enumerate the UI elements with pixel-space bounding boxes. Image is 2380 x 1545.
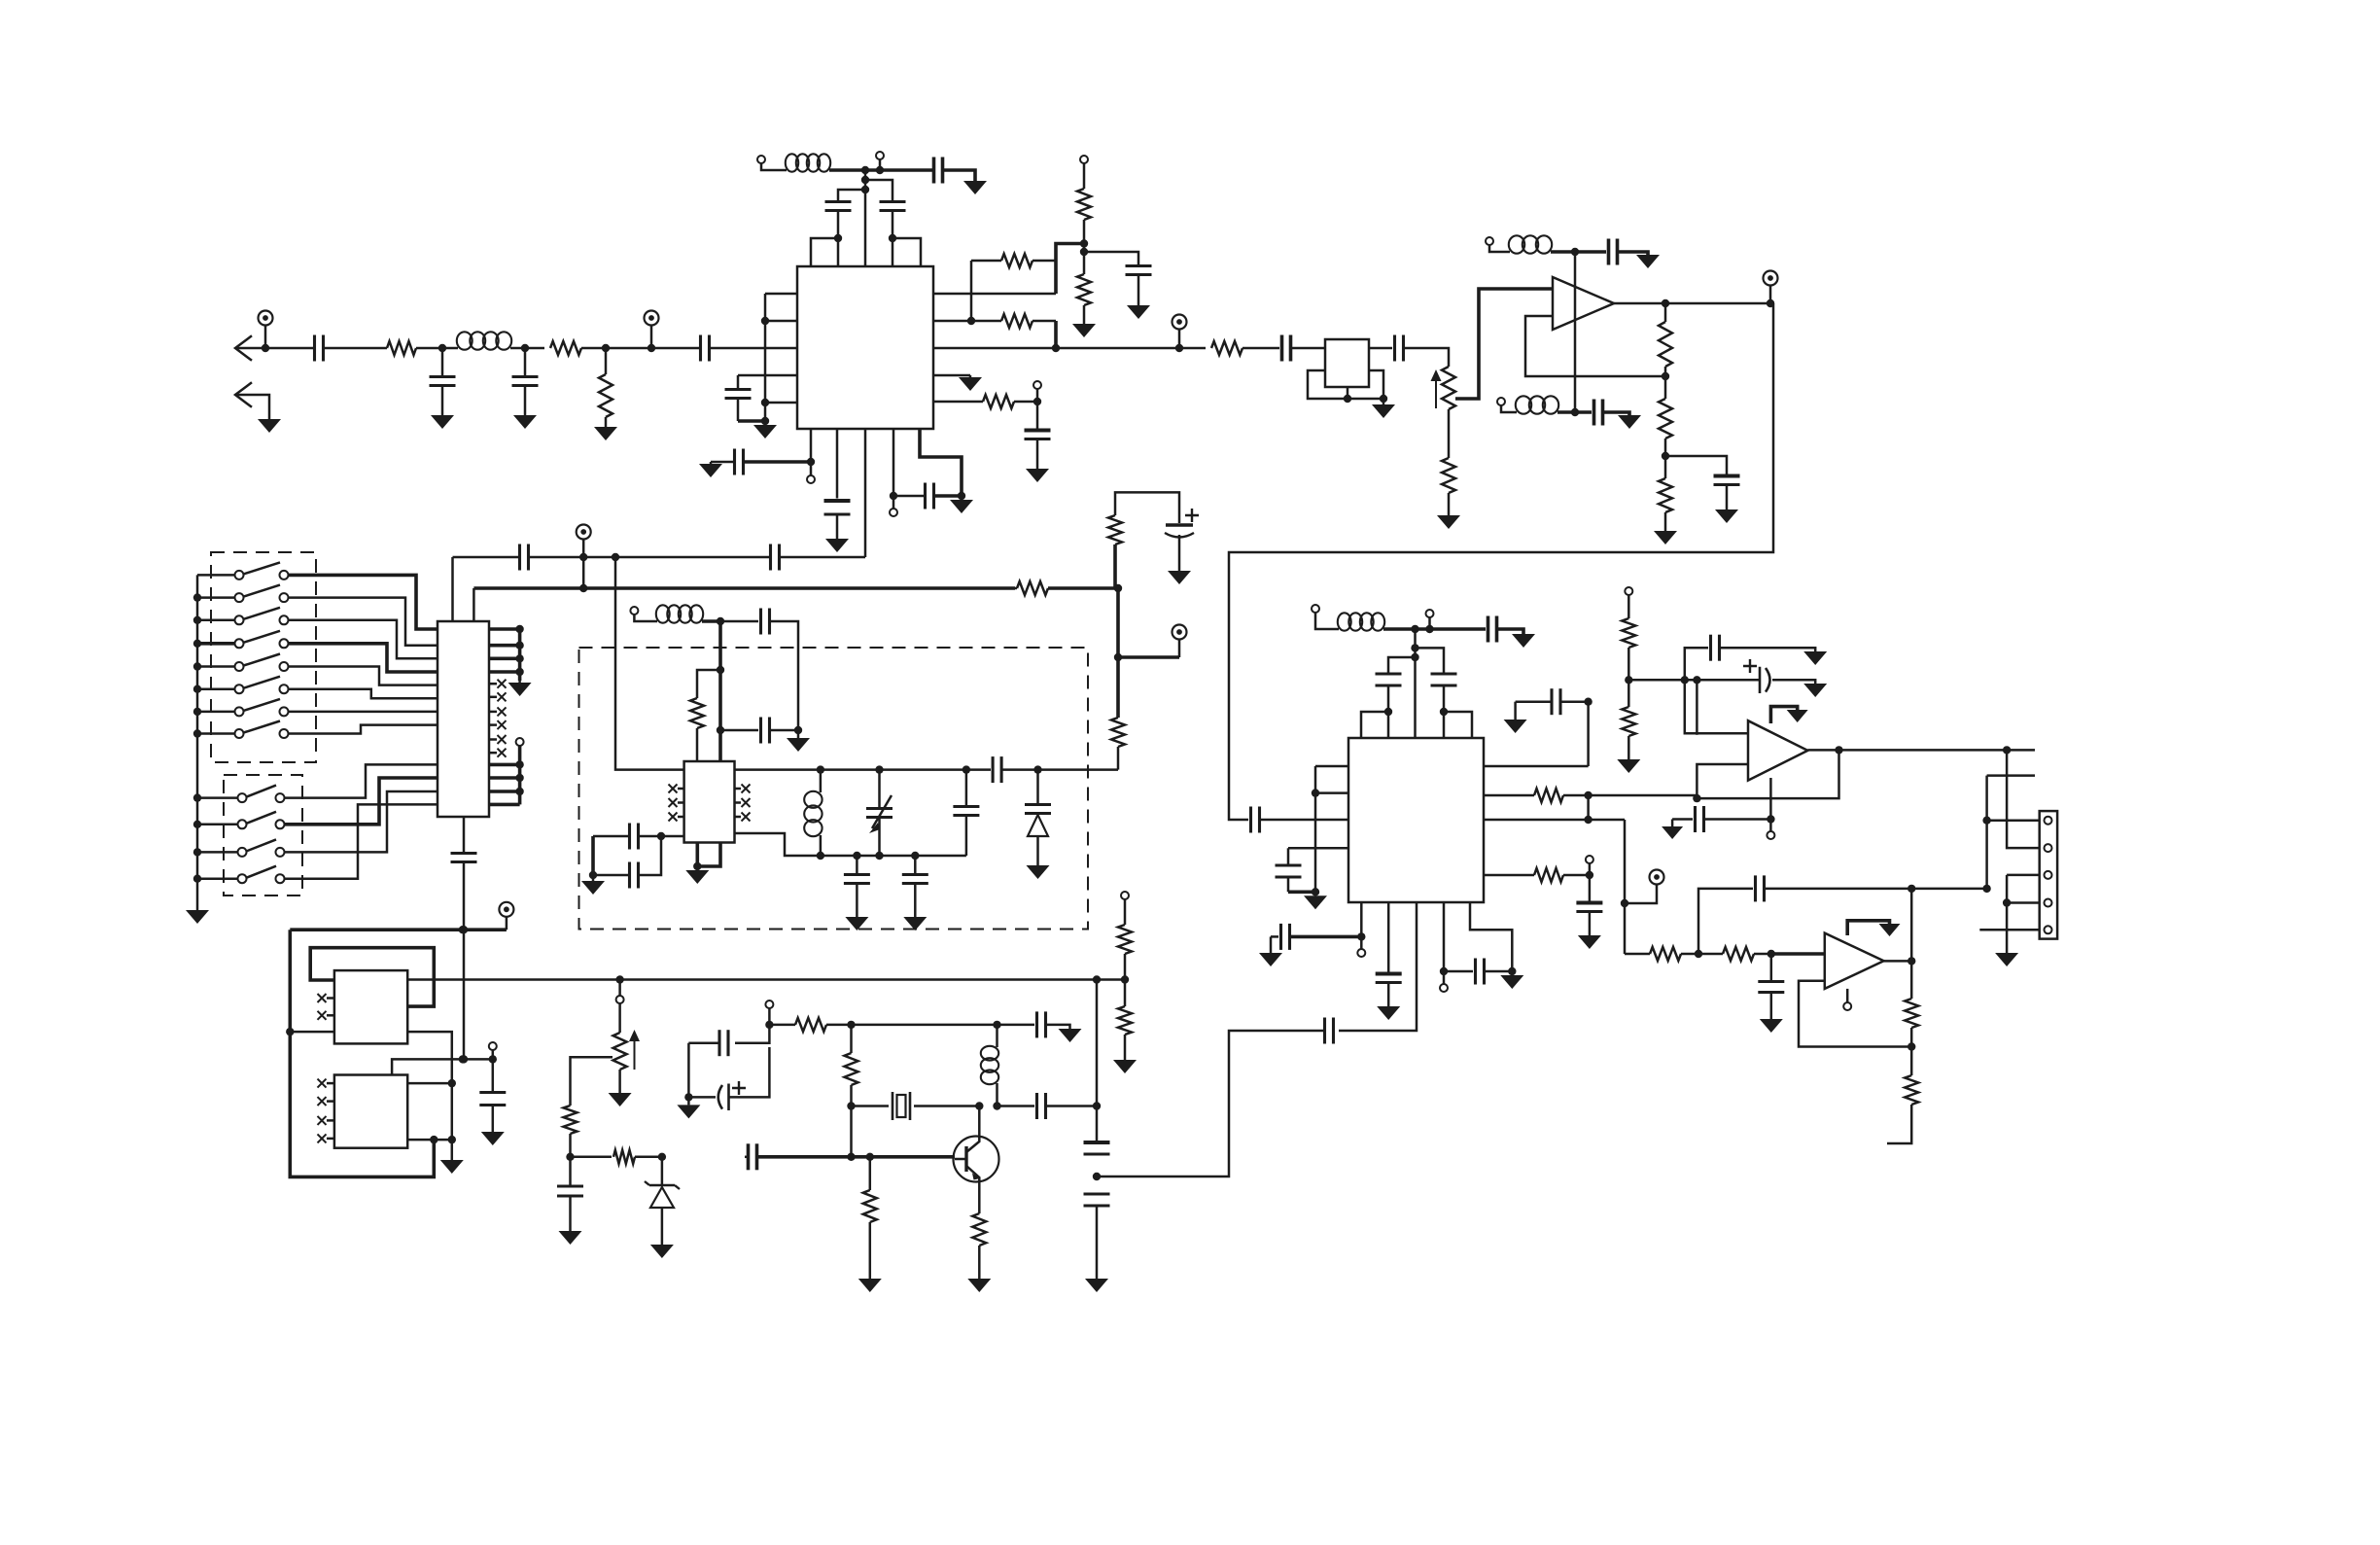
- capacitor C3: [512, 348, 539, 412]
- pin stub: [765, 320, 797, 323]
- junction: [193, 616, 201, 624]
- capacitor C45b: [479, 1059, 506, 1132]
- node A3: [521, 344, 529, 352]
- terminal: [1312, 605, 1319, 613]
- wire: [870, 1155, 955, 1159]
- node B4: [861, 166, 869, 174]
- node C3: [1571, 248, 1579, 256]
- node H15: [1508, 967, 1516, 975]
- terminal: [516, 738, 524, 746]
- nc pin x: [489, 720, 507, 729]
- IC U4 (VCO): [684, 761, 735, 843]
- wire: [829, 168, 865, 172]
- ground: [1127, 303, 1150, 319]
- wire bus: [933, 347, 1179, 350]
- junction: [193, 593, 201, 601]
- node K1: [459, 926, 467, 933]
- resistor R6: [1077, 163, 1091, 252]
- switch S12: [197, 866, 285, 884]
- pin stub: [1484, 765, 1589, 768]
- wire: [718, 621, 722, 730]
- wire loop: [290, 930, 434, 1176]
- capacitor C33b: [1376, 674, 1402, 712]
- capacitor C26b: [593, 836, 661, 889]
- inductor L5: [656, 605, 703, 622]
- junction: [193, 729, 201, 737]
- nc pin x: [669, 785, 684, 793]
- capacitor C5: [725, 375, 752, 421]
- ground: [1654, 531, 1677, 544]
- node J5: [1907, 1042, 1915, 1050]
- ground: [699, 462, 722, 477]
- capacitor C14: [1025, 402, 1051, 467]
- node B16: [807, 458, 815, 466]
- capacitor C49b: [1037, 1093, 1046, 1119]
- test point TP2: [645, 311, 659, 349]
- ground: [967, 1279, 991, 1292]
- potentiometer RV2: [613, 1003, 640, 1070]
- node B3: [761, 417, 769, 425]
- node J1: [1695, 950, 1702, 958]
- wire: [1514, 702, 1517, 720]
- junction: [193, 662, 201, 670]
- terminal TP7: [1625, 870, 1664, 904]
- ground: [1803, 684, 1827, 697]
- switch bus: [196, 575, 199, 910]
- ground: [594, 425, 617, 440]
- node C7: [1662, 452, 1669, 460]
- wire: [1575, 250, 1606, 254]
- crystal Y1: [852, 1092, 980, 1120]
- ground: [1059, 1029, 1082, 1042]
- ground: [1636, 255, 1660, 268]
- ground: [1995, 953, 2018, 966]
- capacitor C25b: [593, 824, 661, 850]
- pin stub: [933, 293, 1056, 296]
- pin stub: [1288, 847, 1348, 850]
- capacitor C20b: [451, 854, 477, 862]
- ground: [903, 917, 927, 931]
- ground: [825, 537, 849, 552]
- wire top: [290, 928, 507, 931]
- wire: [1587, 702, 1590, 766]
- node I5: [1693, 794, 1700, 802]
- node F3: [717, 726, 724, 734]
- node B8: [889, 234, 896, 242]
- pin stub: [1484, 819, 1625, 822]
- terminal: [630, 607, 638, 614]
- ground: [1662, 826, 1683, 839]
- wire: [518, 629, 522, 681]
- node M2: [684, 1093, 692, 1101]
- inductor L6: [804, 770, 822, 856]
- node M8: [847, 1153, 855, 1161]
- node I8: [2003, 746, 2011, 754]
- resistor R33: [1118, 979, 1132, 1060]
- wire: [463, 1058, 493, 1061]
- ground: [858, 1279, 882, 1292]
- node K2: [286, 1028, 294, 1036]
- ground: [508, 681, 532, 696]
- node K5: [430, 1136, 437, 1143]
- inductor L3: [1509, 235, 1552, 253]
- capacitor C28b series: [993, 756, 1001, 783]
- wire: [1557, 410, 1575, 414]
- node E1: [579, 553, 587, 561]
- pol capacitor PC1: [1165, 509, 1199, 569]
- ground: [1760, 1019, 1783, 1033]
- wire: [1054, 321, 1058, 348]
- wire: [810, 429, 813, 462]
- wire: [1807, 749, 2035, 752]
- wire: [1987, 819, 2040, 822]
- capacitor C9: [1126, 266, 1152, 304]
- ground: [258, 417, 281, 433]
- capacitor C40b: [1444, 959, 1512, 985]
- node I2: [1681, 676, 1689, 684]
- pin box: [1444, 712, 1472, 738]
- wire: [865, 168, 933, 172]
- node A1: [262, 344, 269, 352]
- node J2: [1767, 950, 1775, 958]
- resistor R30: [863, 1157, 877, 1279]
- switch S4: [197, 631, 289, 649]
- wire: [2007, 874, 2040, 877]
- pol capacitor PC2: [1697, 659, 1815, 693]
- wire: [1614, 302, 1773, 305]
- wire y605: [473, 586, 1015, 590]
- ground: [650, 1245, 674, 1258]
- pin stub: [765, 402, 797, 404]
- ground: [963, 181, 987, 194]
- wire pwr: [1847, 921, 1889, 935]
- wire: [265, 347, 314, 350]
- wire: [453, 556, 520, 559]
- junction: [193, 685, 201, 693]
- ground: [1437, 513, 1460, 529]
- wire: [997, 1105, 1035, 1107]
- wire net11: [285, 791, 438, 852]
- capacitor C42b: [1672, 806, 1770, 832]
- resistor R16: [1108, 515, 1122, 588]
- wire: [702, 619, 720, 623]
- wire: [1671, 820, 1674, 827]
- resistor R8: [933, 395, 1037, 408]
- node B18: [958, 492, 965, 500]
- terminal: [1080, 156, 1088, 163]
- wire: [1046, 1105, 1097, 1107]
- terminal: [890, 496, 897, 516]
- node C1: [1344, 395, 1351, 403]
- resistor R3: [599, 348, 612, 425]
- switch S8: [197, 721, 289, 739]
- transistor Q1: [954, 1106, 999, 1214]
- node J4: [1907, 885, 1915, 893]
- resistor R10: [1442, 458, 1455, 513]
- node F10: [962, 765, 970, 773]
- terminal: [807, 462, 815, 483]
- wire net1: [289, 575, 438, 629]
- capacitor C51b: [1084, 1142, 1110, 1154]
- nc pin x: [318, 1079, 334, 1088]
- node M6: [993, 1102, 1000, 1109]
- capacitor C23b: [761, 609, 770, 635]
- nc pin x: [489, 692, 507, 701]
- capacitor C7: [880, 202, 906, 239]
- wire: [1416, 627, 1487, 631]
- wire: [451, 557, 454, 621]
- wire: [1575, 410, 1592, 414]
- ground: [1504, 720, 1527, 733]
- wire: [651, 347, 700, 350]
- wire: [768, 1008, 771, 1025]
- wire: [764, 294, 767, 421]
- node H2: [1425, 625, 1433, 633]
- wire: [770, 729, 798, 732]
- node F5: [693, 862, 701, 870]
- connector J3: [2040, 811, 2057, 939]
- capacitor C19b: [1251, 807, 1260, 833]
- IC U5: [1348, 738, 1484, 902]
- resistor R4: [971, 254, 1056, 267]
- wire: [864, 429, 867, 557]
- wire: [2007, 901, 2040, 904]
- wire net8: [289, 725, 438, 734]
- nc pin x: [735, 798, 751, 807]
- capacitor C31b: [1488, 616, 1497, 643]
- node H11: [1584, 816, 1592, 824]
- node L1: [566, 1153, 574, 1161]
- ground: [677, 1097, 700, 1118]
- capacitor C48b: [1037, 1011, 1046, 1037]
- terminal: [1843, 1002, 1851, 1010]
- ground: [1026, 467, 1049, 482]
- terminal: [1625, 587, 1632, 595]
- node F15: [911, 852, 919, 860]
- nc pin x: [489, 707, 507, 716]
- wire fb: [1799, 981, 1911, 1047]
- node N2: [1121, 975, 1129, 983]
- pin box: [892, 238, 921, 266]
- node N4: [1093, 1173, 1101, 1180]
- terminal: [1033, 381, 1041, 402]
- ground: [513, 412, 537, 429]
- capacitor C22b: [771, 544, 780, 571]
- wire net12: [285, 804, 438, 878]
- node F11: [1033, 765, 1041, 773]
- switch S2: [197, 585, 289, 603]
- node B6: [861, 176, 869, 184]
- resistor R20: [1622, 595, 1635, 680]
- node I4: [1835, 746, 1842, 754]
- capacitor C8: [825, 202, 852, 239]
- ground: [1500, 971, 1523, 989]
- pin stub: [407, 1139, 452, 1141]
- dashed box SW bank1: [211, 552, 316, 762]
- wire: [518, 746, 522, 804]
- pin stub: [933, 374, 970, 377]
- wire: [661, 835, 684, 838]
- wire: [1624, 820, 1627, 954]
- node I9: [2003, 898, 2011, 906]
- switch S9: [197, 786, 285, 803]
- resistor R27: [571, 1150, 662, 1164]
- node M5: [847, 1102, 855, 1109]
- capacitor C35b: [1516, 688, 1589, 715]
- wire: [943, 170, 975, 181]
- capacitor C11: [1395, 335, 1404, 362]
- node H14: [1357, 932, 1365, 940]
- node H10: [1584, 791, 1592, 799]
- capacitor C13: [1714, 476, 1740, 509]
- node F9: [875, 765, 883, 773]
- wire U8 out: [407, 978, 1125, 981]
- capacitor C4: [701, 335, 710, 362]
- dashed box VCO: [579, 648, 1089, 930]
- node F12: [817, 852, 824, 860]
- wire: [770, 621, 798, 730]
- wire: [920, 429, 962, 496]
- nc pin x: [735, 785, 751, 793]
- terminal TP8: [499, 902, 513, 930]
- node A4: [602, 344, 610, 352]
- wire: [1884, 960, 1912, 963]
- inductor L1: [457, 332, 511, 349]
- junction: [515, 760, 523, 795]
- wire: [710, 347, 797, 350]
- wire: [1618, 252, 1648, 255]
- node N1: [1093, 975, 1101, 983]
- wire: [618, 1070, 621, 1093]
- wire: [1448, 409, 1451, 458]
- nc pin x: [489, 735, 507, 744]
- resistor R11: [1659, 303, 1672, 376]
- terminal: [1426, 610, 1434, 617]
- resistor R21: [1622, 680, 1635, 759]
- capacitor C12: [1609, 239, 1618, 265]
- resistor R23: [1698, 947, 1771, 961]
- pin stubs: [489, 764, 520, 804]
- IC U8: [334, 970, 407, 1043]
- wire: [1260, 819, 1348, 822]
- switch S11: [197, 839, 285, 857]
- wire: [1369, 347, 1392, 350]
- ground: [1304, 892, 1327, 909]
- wire: [618, 980, 621, 997]
- wire: [1987, 774, 2035, 777]
- wire: [1696, 680, 1698, 735]
- switch S7: [197, 699, 289, 717]
- ground: [1113, 1060, 1137, 1073]
- wire net3: [289, 620, 438, 659]
- dashed box SW bank2: [224, 775, 302, 895]
- node C2: [1380, 395, 1387, 403]
- wire: [864, 170, 867, 266]
- node N3: [1093, 1102, 1101, 1109]
- wire: [1574, 252, 1577, 412]
- IC U1: [797, 266, 933, 429]
- wire net5: [289, 667, 438, 685]
- node B14: [1080, 248, 1088, 256]
- node M9: [866, 1153, 874, 1161]
- wire: [865, 180, 892, 202]
- ground: [431, 412, 454, 429]
- terminal TP5: [577, 525, 591, 558]
- node L2: [658, 1153, 666, 1161]
- wire: [1414, 629, 1417, 738]
- capacitor C41b: [1685, 635, 1815, 681]
- ground: [609, 1093, 632, 1106]
- terminal: [1440, 971, 1448, 992]
- wire: [1229, 303, 1773, 820]
- resistor R28: [769, 1018, 851, 1032]
- nc pin x: [669, 813, 684, 822]
- resistor R5: [971, 314, 1056, 328]
- resistor R17: [1111, 657, 1125, 770]
- wire: [1428, 617, 1431, 629]
- zener D2: [645, 1157, 680, 1245]
- pol capacitor PC3: [688, 1047, 769, 1110]
- node F14: [875, 852, 883, 860]
- wire: [1603, 412, 1629, 415]
- ground: [186, 910, 209, 924]
- capacitor C43b: [1758, 954, 1784, 1019]
- wire: [1288, 890, 1315, 894]
- node A5: [647, 344, 655, 352]
- resistor R15: [690, 698, 704, 761]
- nc pin x: [318, 994, 334, 1002]
- capacitor C16b: [824, 429, 851, 537]
- wire: [780, 556, 865, 559]
- varactor diode D1: [1025, 770, 1051, 865]
- wire: [1625, 953, 1648, 956]
- switch S6: [197, 677, 289, 694]
- wire: [879, 159, 882, 170]
- wire: [1985, 776, 1988, 889]
- node H4: [1411, 653, 1418, 661]
- node B13: [1175, 344, 1183, 352]
- junction: [193, 793, 201, 801]
- wire: [997, 1024, 1035, 1027]
- wire: [1771, 952, 1825, 956]
- capacitor C50b: [745, 1143, 757, 1170]
- ground: [1618, 415, 1641, 429]
- ground: [1879, 924, 1901, 936]
- resistor R31: [972, 1213, 986, 1279]
- node K3: [448, 1079, 456, 1087]
- resistor R14: [1015, 581, 1118, 595]
- ground: [753, 421, 777, 439]
- switch S10: [197, 812, 285, 829]
- wire: [1388, 657, 1416, 676]
- terminal TP3: [1172, 315, 1187, 349]
- IC U3: [437, 621, 489, 817]
- wire: [1525, 316, 1665, 376]
- ground: [1803, 651, 1827, 665]
- junction: [193, 708, 201, 716]
- terminal: [757, 156, 765, 163]
- node M3: [847, 1021, 855, 1029]
- test point TP1: [259, 311, 273, 349]
- node H6: [1384, 708, 1392, 716]
- terminal: [876, 152, 884, 159]
- terminal: [1486, 237, 1493, 245]
- node B17: [890, 492, 897, 500]
- terminal: [489, 1042, 497, 1059]
- wire net4: [289, 644, 438, 672]
- ground: [1617, 759, 1640, 773]
- node J3: [1907, 957, 1915, 965]
